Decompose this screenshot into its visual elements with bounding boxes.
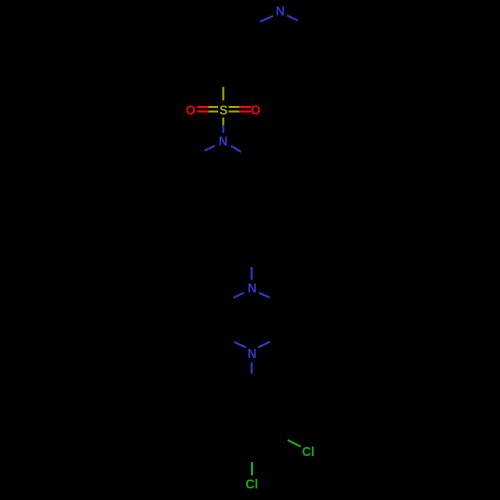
svg-text:Cl: Cl (246, 478, 259, 492)
svg-text:O: O (251, 103, 261, 117)
wire N4 up-right half-bond (258, 342, 270, 348)
wire N3 down-left half-bond (234, 293, 244, 298)
wire N1 to CH3 left (blue half-bond) (260, 16, 273, 22)
node N4 (piperazine bottom nitrogen) (247, 347, 256, 361)
wire N3 down-right half-bond (259, 293, 270, 298)
svg-text:N: N (219, 135, 228, 149)
svg-text:N: N (247, 347, 256, 361)
wire S1=O1 double bond red halves (197, 106, 208, 108)
svg-text:N: N (276, 5, 285, 19)
wire C-S (yellow half-bond above S) (222, 87, 224, 101)
svg-text:Cl: Cl (302, 445, 315, 459)
node N1 (top dimethylamino nitrogen) (276, 5, 285, 19)
wire N2 left half-bond (205, 146, 215, 151)
node Cl2 (chlorine para position) (246, 478, 259, 492)
node O1 (left sulfonyl oxygen) (186, 103, 196, 117)
wire S1=O1 double bond yellow halves (208, 106, 218, 108)
svg-text:O: O (186, 103, 196, 117)
wire S1=O2 double bond red halves (239, 106, 251, 108)
wire C-N3 blue half (vertical above piperazine) (251, 267, 253, 280)
node O2 (right sulfonyl oxygen) (251, 103, 261, 117)
wire N4 to phenyl ipso blue half (251, 362, 253, 374)
node N2 (sulfonamide nitrogen) (219, 135, 228, 149)
node N3 (piperazine top nitrogen) (248, 282, 257, 296)
svg-text:S: S (219, 104, 227, 118)
node Cl1 (chlorine meta position) (302, 445, 315, 459)
wire N4 up-left half-bond (234, 342, 246, 347)
wire N2 right half-bond (231, 146, 241, 152)
wire C-Cl2 green half-bond (251, 462, 253, 476)
wire S1-N2 yellow half (222, 117, 224, 125)
wire C-Cl1 green half-bond (288, 440, 301, 447)
wire S1=O2 double bond yellow halves (229, 106, 240, 108)
svg-text:N: N (248, 282, 257, 296)
node S1 (sulfonyl sulfur) (219, 104, 227, 118)
wire N1 to CH3 right (blue half-bond) (287, 16, 298, 21)
wire S1-N2 blue half (222, 125, 224, 133)
